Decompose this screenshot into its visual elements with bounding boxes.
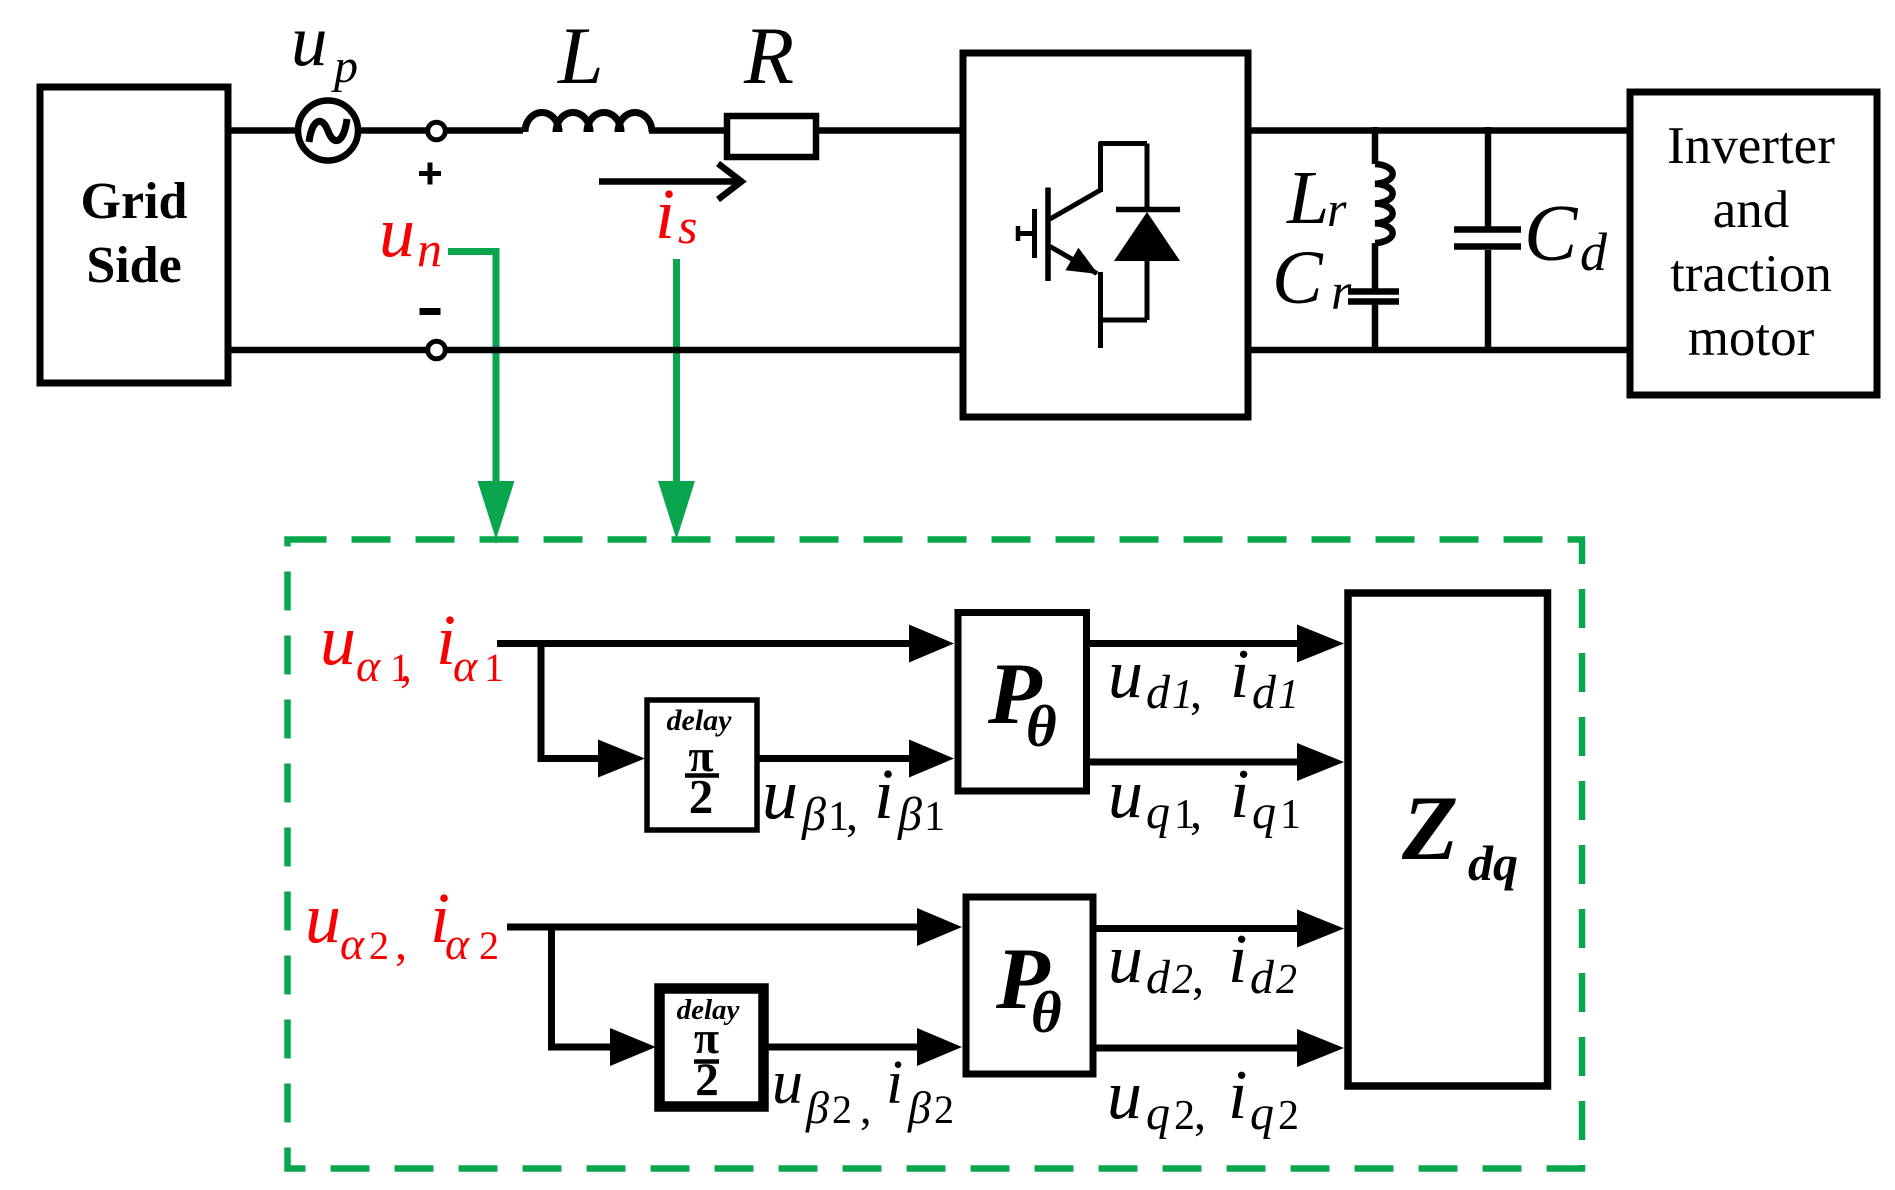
- svg-text:i: i: [1230, 636, 1249, 713]
- label ub1 ib1: [762, 754, 945, 841]
- wire delay2 to P2: [767, 1044, 918, 1051]
- wire input 1 to P1: [497, 640, 910, 647]
- dashed analysis box: [288, 540, 1583, 1169]
- svg-text:1: 1: [1278, 672, 1299, 718]
- svg-text:u: u: [772, 1049, 803, 1117]
- label uq1 iq1: [1108, 756, 1301, 839]
- svg-text:r: r: [1331, 264, 1352, 321]
- P theta box 2: [966, 897, 1093, 1074]
- svg-text:L: L: [1286, 156, 1329, 240]
- AC source: [298, 101, 358, 161]
- svg-text:r: r: [1327, 181, 1347, 237]
- svg-text:i: i: [1228, 1057, 1247, 1134]
- wire resistor to converter: [816, 127, 961, 134]
- IGBT with diode: [1016, 142, 1180, 348]
- svg-text:s: s: [678, 198, 697, 254]
- label ud1 id1: [1108, 636, 1299, 719]
- svg-text:2: 2: [479, 923, 499, 968]
- svg-text:dq: dq: [1468, 835, 1518, 891]
- svg-text:1: 1: [484, 645, 504, 690]
- svg-text:u: u: [1108, 636, 1143, 713]
- svg-text:d: d: [1146, 666, 1171, 719]
- svg-text:d: d: [1250, 951, 1275, 1004]
- current arrow i_s: [599, 164, 742, 200]
- wire terminal to inductor: [445, 127, 523, 134]
- svg-text:q: q: [1146, 1087, 1170, 1140]
- svg-text:,: ,: [846, 788, 858, 841]
- arrow into Z 1: [1297, 625, 1344, 663]
- svg-text:,: ,: [400, 639, 412, 692]
- svg-text:q: q: [1252, 786, 1276, 839]
- wire branch 2 down: [552, 924, 613, 1047]
- svg-text:β: β: [801, 788, 826, 841]
- wire input 2 to P2: [507, 924, 918, 931]
- svg-text:q: q: [1250, 1087, 1274, 1140]
- svg-text:and: and: [1713, 181, 1790, 239]
- terminal node +: [419, 122, 445, 184]
- arrow into P2 input 1: [917, 908, 962, 946]
- svg-text:2: 2: [1276, 957, 1297, 1003]
- wire converter to inverter top: [1248, 127, 1632, 134]
- wire source to terminal: [357, 127, 428, 134]
- svg-text:2: 2: [695, 1054, 719, 1106]
- svg-text:traction: traction: [1670, 245, 1832, 303]
- label u_p: [291, 0, 358, 93]
- svg-text:2: 2: [832, 1087, 852, 1132]
- svg-text:,: ,: [395, 917, 407, 970]
- svg-text:d: d: [1252, 666, 1277, 719]
- node ua1 ia1 red label: [320, 600, 504, 692]
- inductor Lr capacitor Cr branch: [1348, 127, 1399, 350]
- svg-text:i: i: [655, 174, 675, 254]
- wire P1 out 1: [1090, 640, 1298, 647]
- svg-text:θ: θ: [1031, 979, 1062, 1045]
- svg-text:β: β: [907, 1082, 931, 1133]
- svg-text:u: u: [291, 0, 328, 81]
- svg-text:L: L: [557, 10, 604, 101]
- wire P2 out 2: [1095, 1045, 1298, 1052]
- label ub2 ib2: [772, 1049, 954, 1133]
- svg-text:Z: Z: [1401, 777, 1458, 879]
- green measurement arrow from i_s: [658, 259, 695, 540]
- wire top from grid box to source: [228, 127, 299, 134]
- converter box: [963, 53, 1248, 417]
- arrow into delay 2: [610, 1028, 656, 1066]
- label Lr: [1286, 156, 1347, 240]
- svg-text:i: i: [886, 1049, 903, 1117]
- wire bottom terminal to converter: [445, 347, 961, 354]
- delay pi/2 box 2: [660, 989, 764, 1107]
- label Cd: [1524, 190, 1608, 282]
- wire delay1 to P1: [757, 755, 910, 762]
- svg-text:2: 2: [689, 769, 714, 824]
- inverter and traction motor box: [1630, 92, 1877, 395]
- wire converter to inverter bottom: [1248, 347, 1632, 354]
- svg-text:d: d: [1580, 222, 1608, 282]
- terminal node -: [420, 312, 446, 359]
- arrow into Z 2: [1297, 743, 1344, 781]
- wire P1 out 2: [1090, 759, 1298, 766]
- svg-text:1: 1: [924, 794, 945, 840]
- svg-text:u: u: [1107, 1057, 1142, 1134]
- inductor L: [525, 10, 652, 132]
- label Cr: [1272, 236, 1352, 321]
- svg-text:α: α: [453, 640, 478, 691]
- delay pi/2 box 1: [647, 700, 757, 830]
- svg-text:,: ,: [860, 1082, 872, 1133]
- svg-text:C: C: [1524, 190, 1579, 278]
- svg-text:R: R: [743, 10, 794, 101]
- wire bottom from grid box: [228, 347, 426, 354]
- svg-text:u: u: [379, 192, 415, 272]
- label i_s red: [655, 174, 697, 254]
- svg-text:u: u: [320, 600, 356, 680]
- svg-text:u: u: [762, 754, 798, 834]
- svg-text:2: 2: [369, 923, 389, 968]
- svg-text:Side: Side: [86, 237, 181, 294]
- wire P2 out 1: [1095, 925, 1298, 932]
- svg-text:motor: motor: [1688, 309, 1815, 367]
- svg-text:2: 2: [1278, 1093, 1299, 1139]
- svg-text:θ: θ: [1026, 693, 1057, 759]
- svg-text:p: p: [331, 40, 358, 93]
- label ud2 id2: [1108, 921, 1297, 1004]
- wire inductor to resistor: [649, 127, 727, 134]
- svg-text:Grid: Grid: [81, 173, 188, 230]
- svg-text:C: C: [1272, 236, 1324, 320]
- grid side box: [40, 87, 228, 383]
- svg-text:i: i: [1228, 921, 1247, 998]
- svg-text:2: 2: [934, 1087, 954, 1132]
- green measurement arrow from u_n: [448, 252, 515, 540]
- arrow into Z 3: [1297, 910, 1344, 948]
- svg-text:Inverter: Inverter: [1667, 117, 1835, 175]
- svg-text:1: 1: [1280, 792, 1301, 838]
- svg-text:u: u: [1108, 756, 1143, 833]
- P theta box 1: [958, 613, 1087, 792]
- svg-text:u: u: [1108, 921, 1143, 998]
- svg-text:i: i: [1230, 756, 1249, 833]
- arrow into P2 input 2: [917, 1028, 962, 1066]
- svg-text:,: ,: [1190, 786, 1202, 839]
- arrow into P1 input 2: [909, 740, 954, 778]
- svg-text:2: 2: [1172, 957, 1193, 1003]
- svg-text:β: β: [805, 1082, 829, 1133]
- arrow into P1 input 1: [909, 625, 954, 663]
- svg-text:n: n: [417, 221, 442, 277]
- label u_n red: [379, 192, 442, 277]
- svg-text:i: i: [874, 754, 894, 834]
- svg-text:d: d: [1146, 951, 1171, 1004]
- svg-text:α: α: [445, 918, 470, 969]
- svg-text:,: ,: [1190, 666, 1202, 719]
- svg-text:2: 2: [1174, 1093, 1195, 1139]
- capacitor Cd branch: [1454, 127, 1521, 350]
- svg-text:,: ,: [1192, 951, 1204, 1004]
- svg-text:,: ,: [1194, 1087, 1206, 1140]
- resistor R: [727, 10, 816, 157]
- arrow into delay 1: [598, 740, 645, 778]
- svg-text:q: q: [1146, 786, 1170, 839]
- svg-text:u: u: [305, 878, 341, 958]
- node ua2 ia2 red label: [305, 878, 499, 970]
- label uq2 iq2: [1107, 1057, 1299, 1140]
- Z dq box: [1348, 593, 1548, 1086]
- svg-text:α: α: [356, 640, 381, 691]
- arrow into Z 4: [1297, 1029, 1344, 1067]
- svg-text:β: β: [897, 788, 922, 841]
- wire branch 1 down: [541, 641, 600, 759]
- svg-text:α: α: [340, 918, 365, 969]
